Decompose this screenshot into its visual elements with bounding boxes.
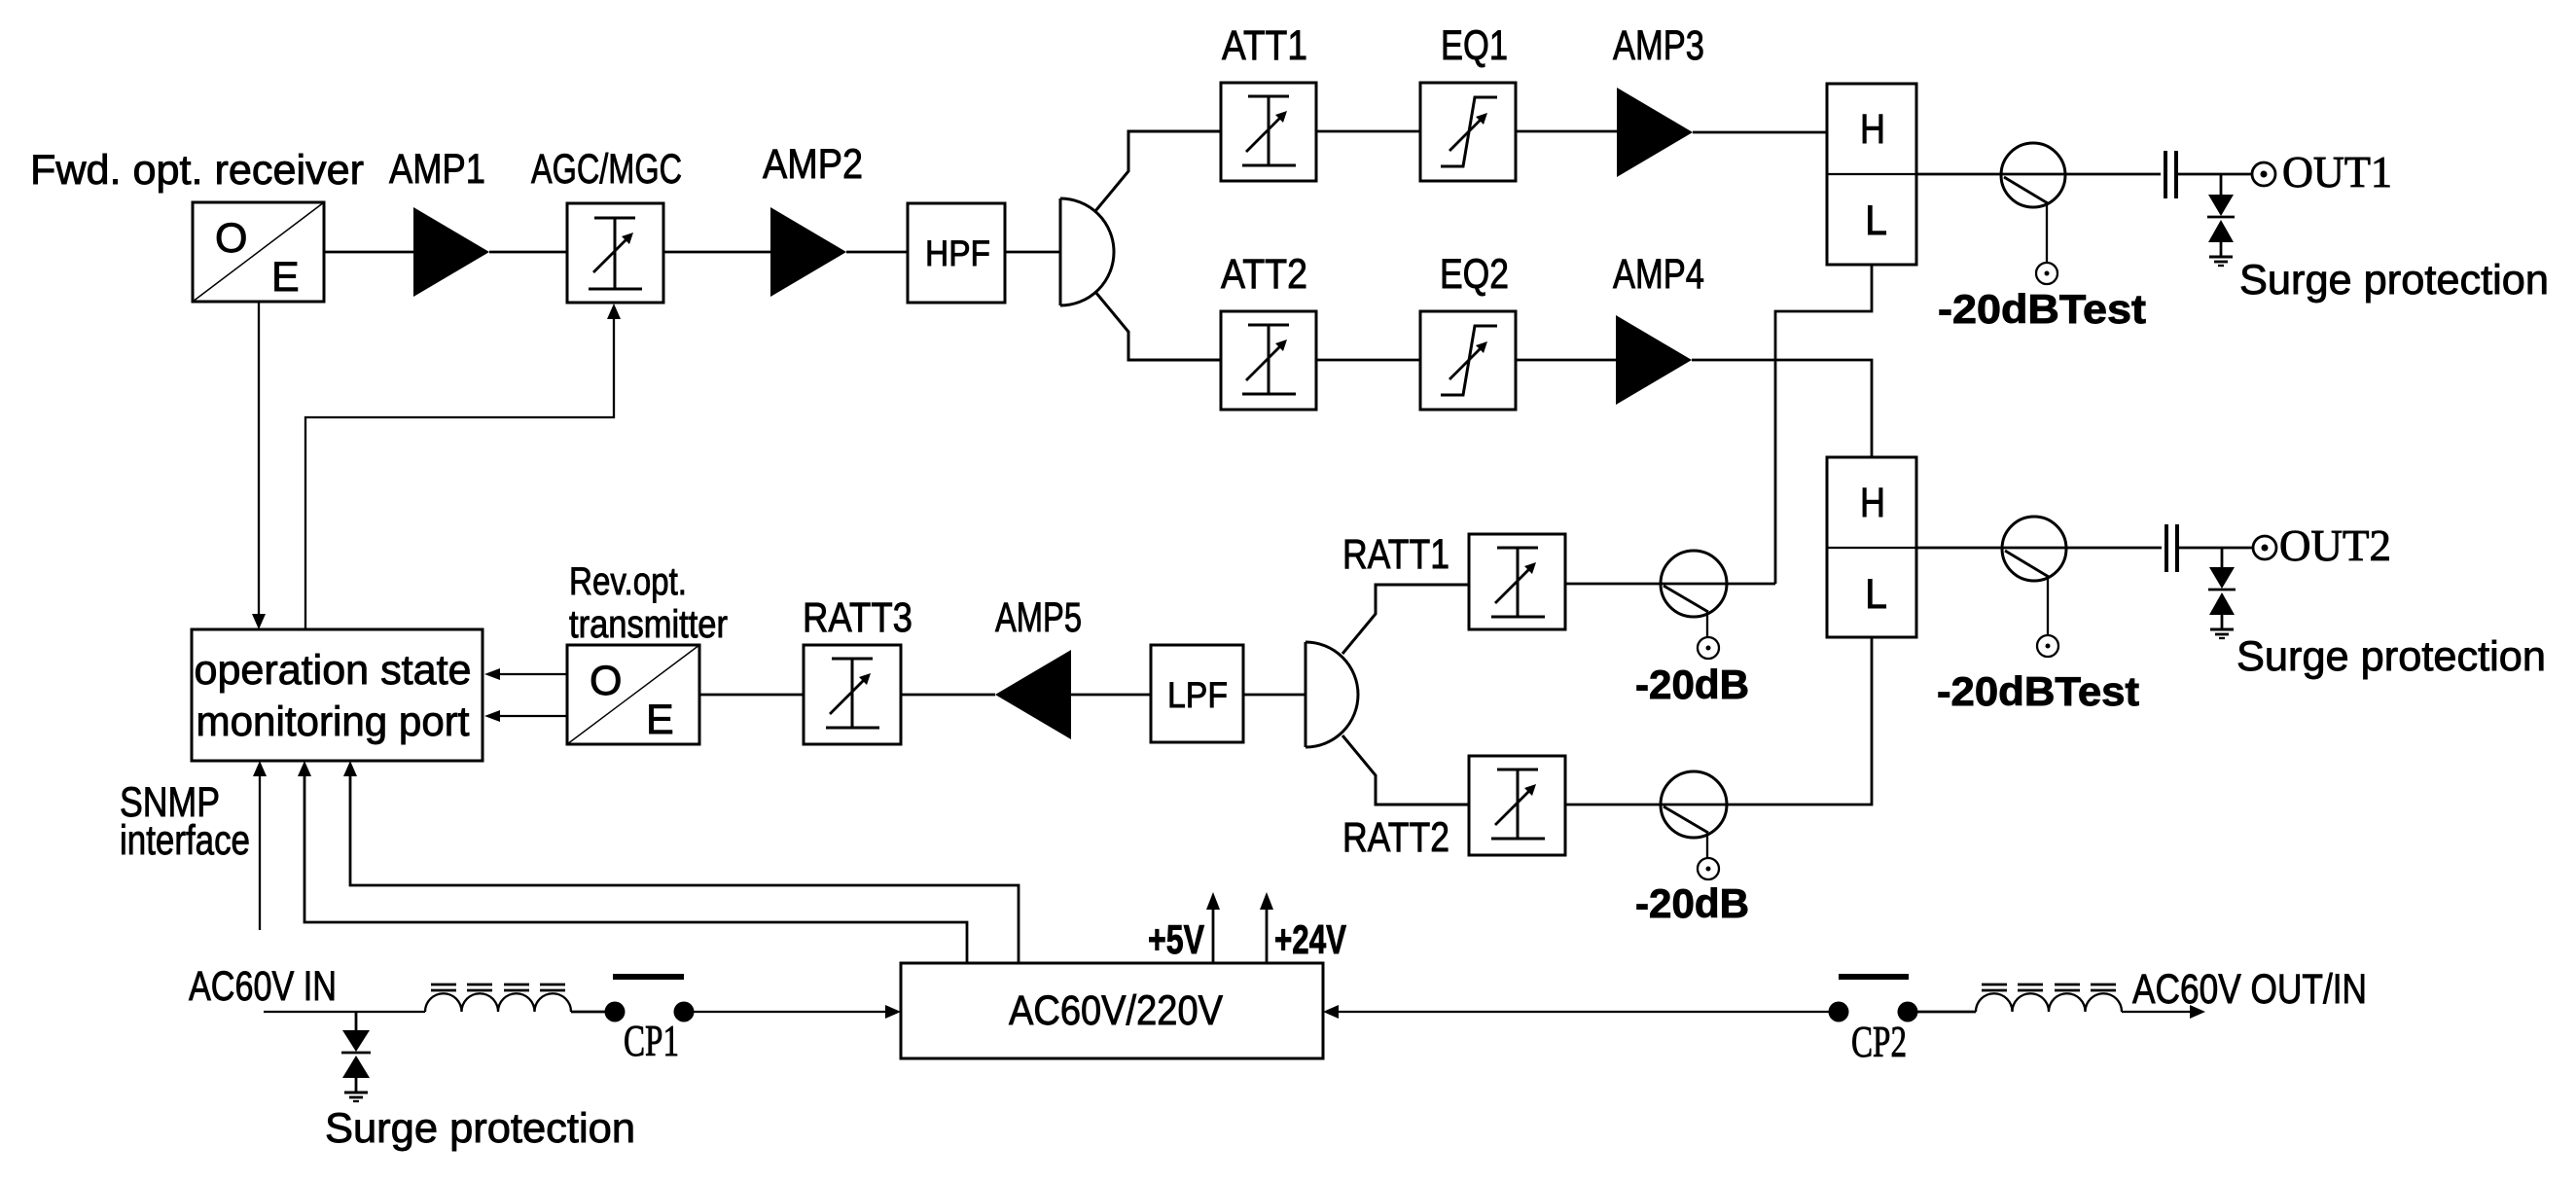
variable attenuator RATT3 — [804, 645, 901, 744]
wire U2 to monitor (upper, arrow) — [484, 668, 567, 680]
wire RATT1 to coupler DC3 — [1565, 583, 1727, 586]
diplexer H/L D2 — [1827, 457, 1916, 637]
svg-text:O: O — [215, 215, 247, 262]
wire U2 to monitor (lower, arrow) — [484, 710, 567, 722]
inductor L1 — [425, 985, 571, 1012]
O/E converter U2 (reverse optical transmitter) — [567, 645, 699, 744]
ground (OUT2 arrester) — [2210, 629, 2234, 638]
wire LPF to AMP5 — [1071, 694, 1151, 697]
svg-text:Fwd. opt. receiver: Fwd. opt. receiver — [30, 147, 364, 194]
svg-text:Surge protection: Surge protection — [2239, 257, 2549, 304]
svg-text:RATT1: RATT1 — [1342, 531, 1449, 578]
ground (OUT1 arrester) — [2209, 257, 2233, 266]
test point TP4 — [1698, 858, 1719, 879]
svg-text:AC60V/220V: AC60V/220V — [1009, 987, 1223, 1034]
svg-text:-20dB: -20dB — [1635, 662, 1749, 707]
test point TP3 — [1698, 637, 1719, 659]
svg-text:ATT2: ATT2 — [1221, 251, 1307, 298]
wire power supply status C (arrow up into monitor) — [343, 761, 1019, 963]
label Rev.opt. transmitter — [569, 560, 728, 646]
wire RATT2 to SP2 — [1342, 735, 1469, 805]
svg-text:RATT3: RATT3 — [803, 594, 912, 641]
wire D1 to coupler — [1916, 173, 2065, 176]
svg-text:AMP5: AMP5 — [995, 594, 1082, 641]
surge arrester branch OUT2 — [2208, 548, 2236, 628]
amplifier AMP1 — [413, 207, 489, 297]
wire DC3 to riser — [1727, 583, 1775, 586]
svg-text:+5V: +5V — [1148, 916, 1204, 962]
wire CP2 to power supply (arrow left) — [1323, 1005, 1829, 1019]
wire D1 L-port to RATT1 line — [1775, 265, 1872, 584]
wire ATT1 to EQ1 — [1316, 130, 1420, 133]
svg-text:monitoring port: monitoring port — [197, 698, 470, 745]
inductor L2 — [1976, 985, 2122, 1012]
amplifier AMP3 — [1617, 88, 1693, 177]
wire DC1 to capacitor — [2065, 173, 2161, 176]
svg-text:OUT2: OUT2 — [2279, 521, 2391, 570]
svg-text:AMP1: AMP1 — [389, 146, 485, 193]
svg-text:AMP3: AMP3 — [1613, 22, 1704, 69]
variable attenuator ATT2 — [1221, 311, 1316, 410]
svg-text:-20dB: -20dB — [1635, 880, 1749, 926]
amplifier AMP4 — [1616, 315, 1692, 405]
variable attenuator ATT1 — [1221, 83, 1316, 181]
wire L1 to CP1 — [571, 1011, 605, 1014]
wire C2 to OUT2 — [2179, 547, 2253, 550]
surge arrester branch AC input — [341, 1012, 371, 1092]
wire SP1 to ATT1 — [1095, 131, 1221, 211]
svg-text:HPF: HPF — [925, 233, 990, 273]
wire C1 to OUT1 — [2178, 173, 2252, 176]
svg-text:AGC/MGC: AGC/MGC — [531, 146, 682, 193]
svg-text:O: O — [590, 658, 622, 704]
power supply AC60V/220V — [901, 963, 1323, 1058]
wire AC60V OUT/IN (arrow right) — [2122, 1005, 2205, 1019]
equalizer EQ1 — [1420, 83, 1516, 181]
svg-text:+24V: +24V — [1274, 916, 1346, 962]
monitor box — [192, 629, 483, 761]
equalizer EQ2 — [1420, 311, 1516, 410]
low-pass filter LPF — [1151, 645, 1243, 742]
variable attenuator AGC/MGC — [567, 203, 663, 303]
wire HPF to splitter — [1005, 251, 1059, 254]
directional coupler DC4 — [1661, 771, 1727, 858]
svg-text:CP2: CP2 — [1851, 1018, 1907, 1066]
O/E converter U1 (forward optical receiver) — [193, 202, 324, 302]
wire U1 to monitor (arrow down) — [252, 302, 266, 629]
svg-text:AC60V OUT/IN: AC60V OUT/IN — [2132, 966, 2367, 1013]
diplexer H/L D1 — [1827, 84, 1916, 265]
wire splitter SP2 to LPF — [1243, 694, 1306, 697]
test point TP2 — [2037, 635, 2058, 657]
svg-text:Surge protection: Surge protection — [2236, 633, 2546, 680]
wire AMP4 to diplexer D2 — [1692, 360, 1872, 457]
svg-text:H: H — [1860, 480, 1885, 526]
svg-text:RATT2: RATT2 — [1342, 814, 1449, 861]
wire RATT1 to SP2 — [1342, 585, 1469, 654]
variable attenuator RATT2 — [1469, 756, 1565, 855]
wire power supply status B (arrow up into monitor) — [298, 761, 967, 963]
wire AC60V IN — [264, 1011, 425, 1013]
wire AMP2 to HPF — [846, 251, 908, 254]
wire RATT3 to U2 — [699, 694, 804, 697]
wire AGC to AMP2 — [663, 251, 770, 254]
svg-text:AC60V IN: AC60V IN — [189, 963, 337, 1010]
svg-text:interface: interface — [120, 817, 250, 864]
svg-text:L: L — [1865, 571, 1887, 618]
svg-text:H: H — [1860, 106, 1885, 153]
label SNMP interface — [120, 779, 250, 864]
svg-text:L: L — [1865, 197, 1887, 244]
wire AMP3 to diplexer — [1693, 131, 1827, 134]
+24V output (arrow up) — [1260, 892, 1273, 963]
ground (AC input arrester) — [344, 1092, 368, 1101]
directional coupler DC2 — [2002, 517, 2066, 635]
wire U1 to AMP1 — [324, 251, 413, 254]
wire monitor to AGC control (arrow up) — [305, 304, 621, 629]
wire EQ1 to AMP3 — [1516, 130, 1617, 133]
combiner SP2 — [1306, 642, 1358, 747]
+5V output (arrow up) — [1206, 892, 1220, 963]
wire ATT2 to EQ2 — [1316, 359, 1420, 362]
wire AMP1 to AGC — [489, 251, 567, 254]
high-pass filter HPF — [908, 203, 1005, 303]
svg-text:EQ1: EQ1 — [1441, 22, 1508, 69]
svg-text:E: E — [646, 697, 674, 743]
wire SNMP interface (arrow up into monitor) — [253, 761, 267, 930]
splitter SP1 — [1060, 198, 1114, 305]
terminal OUT1 — [2252, 162, 2275, 186]
circuit breaker CP1 — [605, 977, 695, 1022]
svg-text:LPF: LPF — [1167, 675, 1228, 715]
wire EQ2 to AMP4 — [1516, 359, 1616, 362]
circuit breaker CP2 — [1829, 977, 1918, 1022]
svg-text:Rev.opt.: Rev.opt. — [569, 560, 687, 603]
svg-text:transmitter: transmitter — [569, 603, 728, 646]
wire DC4 to D2 L-port — [1727, 637, 1872, 805]
wire D2 to coupler DC2 — [1916, 547, 2066, 550]
svg-text:AMP2: AMP2 — [763, 141, 863, 188]
svg-text:-20dBTest: -20dBTest — [1937, 668, 2139, 714]
svg-text:Surge protection: Surge protection — [325, 1105, 635, 1152]
wire SP1 to ATT2 — [1095, 292, 1221, 360]
terminal OUT2 — [2253, 536, 2276, 559]
amplifier AMP5 (leftward) — [995, 650, 1071, 739]
svg-text:E: E — [271, 254, 300, 301]
wire CP2 to inductor L2 — [1917, 1011, 1976, 1014]
svg-text:CP1: CP1 — [624, 1017, 679, 1065]
svg-text:ATT1: ATT1 — [1222, 22, 1307, 69]
variable attenuator RATT1 — [1469, 534, 1565, 629]
surge arrester branch OUT1 — [2207, 174, 2235, 256]
svg-text:-20dBTest: -20dBTest — [1938, 286, 2146, 332]
directional coupler DC1 — [2001, 143, 2065, 263]
test point TP1 — [2036, 263, 2057, 284]
svg-text:operation state: operation state — [195, 647, 472, 694]
directional coupler DC3 — [1661, 551, 1727, 637]
svg-text:AMP4: AMP4 — [1613, 251, 1704, 298]
capacitor C1 — [2165, 151, 2176, 198]
svg-text:EQ2: EQ2 — [1440, 251, 1509, 298]
wire CP1 to power supply (arrow right) — [694, 1005, 901, 1019]
capacitor C2 — [2166, 524, 2177, 572]
wire DC2 to capacitor C2 — [2066, 547, 2162, 550]
wire RATT2 to coupler DC4 — [1565, 804, 1727, 806]
wire AMP5 to RATT3 — [901, 694, 995, 697]
svg-text:OUT1: OUT1 — [2282, 148, 2392, 197]
amplifier AMP2 — [770, 207, 846, 297]
